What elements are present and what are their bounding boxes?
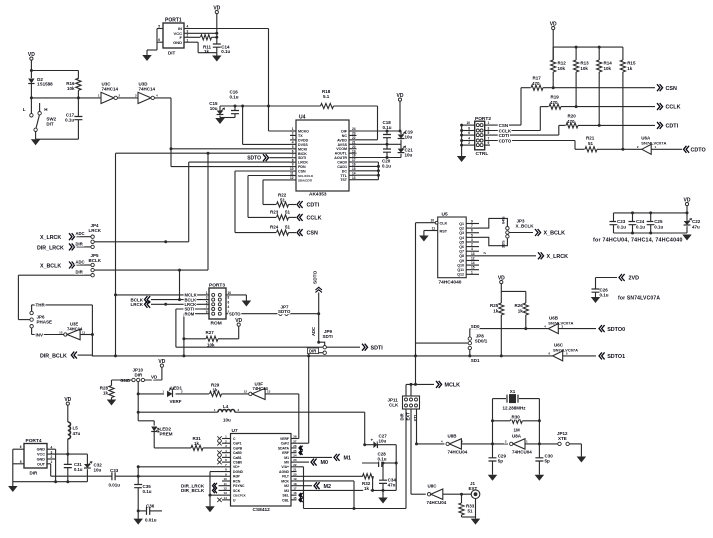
svg-text:3: 3 <box>292 136 294 140</box>
svg-text:DGND: DGND <box>233 470 244 474</box>
svg-text:SCK: SCK <box>233 489 241 493</box>
svg-text:13: 13 <box>352 176 356 180</box>
svg-text:10: 10 <box>290 167 294 171</box>
svg-text:RCN: RCN <box>233 479 241 483</box>
svg-text:5: 5 <box>206 300 208 304</box>
svg-text:23: 23 <box>293 458 297 462</box>
svg-text:C33: C33 <box>110 468 119 473</box>
svg-text:+: + <box>371 438 374 443</box>
svg-text:74HC14: 74HC14 <box>102 87 119 92</box>
svg-text:6: 6 <box>228 300 230 304</box>
svg-text:7: 7 <box>206 305 208 309</box>
svg-text:10u: 10u <box>379 439 387 444</box>
svg-text:DIT: DIT <box>46 122 54 127</box>
svg-text:1S1588: 1S1588 <box>37 82 53 87</box>
svg-text:12: 12 <box>290 176 294 180</box>
svg-text:CAD0: CAD0 <box>337 161 347 165</box>
svg-text:for 74HCU04, 74HC14, 74HC4040: for 74HCU04, 74HC14, 74HC4040 <box>593 238 683 244</box>
svg-text:4: 4 <box>228 305 230 309</box>
svg-text:SD0/1: SD0/1 <box>475 338 488 343</box>
svg-text:12: 12 <box>59 330 63 334</box>
svg-text:10u: 10u <box>210 106 218 111</box>
svg-text:64fs: 64fs <box>502 216 506 224</box>
svg-text:CAD1: CAD1 <box>337 165 347 169</box>
svg-text:LRCK: LRCK <box>89 228 102 233</box>
svg-text:FSYNC: FSYNC <box>233 484 245 488</box>
svg-text:12: 12 <box>471 256 475 260</box>
svg-text:5: 5 <box>471 233 473 237</box>
svg-text:8: 8 <box>468 127 470 131</box>
svg-text:11: 11 <box>290 172 294 176</box>
svg-text:VD+: VD+ <box>233 465 240 469</box>
svg-text:15: 15 <box>352 167 356 171</box>
svg-text:SDTI: SDTI <box>323 334 333 339</box>
svg-text:Q6: Q6 <box>459 245 464 249</box>
svg-text:0.1u: 0.1u <box>383 125 392 130</box>
svg-text:6: 6 <box>292 149 294 153</box>
svg-text:10k: 10k <box>67 86 75 91</box>
svg-text:ROM: ROM <box>185 311 195 316</box>
svg-text:CDTI: CDTI <box>666 124 679 130</box>
svg-text:Q11: Q11 <box>457 268 464 272</box>
svg-text:1k: 1k <box>364 486 370 491</box>
svg-text:17: 17 <box>293 487 297 491</box>
svg-text:C36: C36 <box>146 504 155 509</box>
svg-text:9: 9 <box>488 141 490 145</box>
svg-text:MCKI: MCKI <box>298 147 307 151</box>
svg-text:8: 8 <box>228 296 230 300</box>
svg-text:Q3: Q3 <box>459 231 464 235</box>
svg-text:11: 11 <box>432 226 436 230</box>
svg-text:20: 20 <box>352 145 356 149</box>
svg-text:LRCK: LRCK <box>131 302 144 307</box>
svg-text:AVDD: AVDD <box>337 138 347 142</box>
svg-text:R17: R17 <box>533 76 542 81</box>
svg-text:PREM: PREM <box>160 432 173 437</box>
svg-text:MCLK: MCLK <box>445 383 461 389</box>
svg-text:PORT3: PORT3 <box>209 283 225 289</box>
svg-text:ADC: ADC <box>311 327 316 336</box>
svg-text:12: 12 <box>223 487 227 491</box>
svg-text:22: 22 <box>352 136 356 140</box>
svg-text:10: 10 <box>223 477 227 481</box>
svg-text:TX: TX <box>298 134 303 138</box>
svg-text:SDTO: SDTO <box>278 309 291 314</box>
svg-text:TTL: TTL <box>340 174 347 178</box>
svg-text:M1: M1 <box>344 455 352 461</box>
svg-text:SDTO: SDTO <box>247 156 261 162</box>
svg-text:1: 1 <box>292 127 294 131</box>
svg-text:R30: R30 <box>512 414 521 419</box>
svg-text:U4: U4 <box>299 115 306 121</box>
svg-text:47u: 47u <box>692 224 700 229</box>
svg-text:15: 15 <box>471 266 475 270</box>
svg-text:DIR_BCLK: DIR_BCLK <box>40 353 67 359</box>
svg-text:0.1u: 0.1u <box>221 49 230 54</box>
svg-text:R12: R12 <box>558 61 567 66</box>
svg-text:SDTO0: SDTO0 <box>607 327 625 333</box>
svg-text:MCK: MCK <box>281 479 289 483</box>
svg-text:L: L <box>23 107 26 112</box>
svg-text:1k: 1k <box>103 391 109 396</box>
svg-text:4: 4 <box>292 140 294 144</box>
svg-text:2: 2 <box>471 243 473 247</box>
svg-text:INV: INV <box>36 333 44 338</box>
svg-text:AOUTR: AOUTR <box>334 156 347 160</box>
svg-text:C24: C24 <box>636 219 645 224</box>
svg-text:8: 8 <box>292 158 294 162</box>
svg-text:PORT4: PORT4 <box>26 438 42 444</box>
svg-text:SDATA: SDATA <box>278 446 290 450</box>
svg-text:16: 16 <box>293 491 297 495</box>
svg-text:1k: 1k <box>213 388 219 393</box>
svg-text:VERF: VERF <box>280 437 289 441</box>
svg-text:H: H <box>44 107 47 112</box>
svg-text:14: 14 <box>223 496 227 500</box>
svg-text:22: 22 <box>293 463 297 467</box>
svg-text:10k: 10k <box>558 66 566 71</box>
svg-text:0.1u: 0.1u <box>74 467 83 472</box>
svg-text:VD: VD <box>151 375 158 380</box>
svg-text:CDTO: CDTO <box>499 138 512 143</box>
svg-text:DIR: DIR <box>76 241 83 246</box>
svg-text:RdP: RdP <box>233 475 241 479</box>
svg-text:3: 3 <box>471 238 473 242</box>
svg-text:CSN: CSN <box>666 86 677 92</box>
svg-text:CSN: CSN <box>499 123 509 128</box>
svg-text:VCOM: VCOM <box>336 147 347 151</box>
svg-text:NC: NC <box>342 134 348 138</box>
svg-text:51: 51 <box>285 225 291 230</box>
svg-text:R20: R20 <box>568 113 577 118</box>
svg-text:LRCK: LRCK <box>298 161 308 165</box>
svg-text:CS8412: CS8412 <box>253 507 271 513</box>
svg-text:DVDD: DVDD <box>298 138 309 142</box>
svg-text:SDTI: SDTI <box>298 156 306 160</box>
svg-text:CaF2: CaF2 <box>281 442 289 446</box>
svg-text:DIR_BCLK: DIR_BCLK <box>181 488 205 493</box>
svg-text:51: 51 <box>285 210 291 215</box>
svg-text:CaPB: CaPB <box>233 446 243 450</box>
svg-text:U8C: U8C <box>428 484 438 489</box>
svg-text:15: 15 <box>293 496 297 500</box>
svg-text:X_BCLK: X_BCLK <box>544 231 566 237</box>
svg-text:GND: GND <box>37 458 46 462</box>
svg-text:DIR: DIR <box>400 413 405 420</box>
svg-text:19: 19 <box>352 149 356 153</box>
svg-text:5: 5 <box>488 131 490 135</box>
svg-text:21: 21 <box>352 140 356 144</box>
svg-text:0.1u: 0.1u <box>65 118 74 123</box>
svg-text:Q1: Q1 <box>459 222 464 226</box>
svg-text:5: 5 <box>292 145 294 149</box>
svg-text:21: 21 <box>293 468 297 472</box>
svg-text:0.1u: 0.1u <box>636 224 645 229</box>
svg-text:CaP1: CaP1 <box>233 442 242 446</box>
svg-text:ADC: ADC <box>76 231 85 236</box>
svg-text:CDTO: CDTO <box>691 147 706 153</box>
svg-text:CBL: CBL <box>282 498 289 502</box>
svg-text:RST: RST <box>440 229 448 233</box>
svg-text:EXT: EXT <box>469 486 478 491</box>
svg-text:L4: L4 <box>223 404 229 409</box>
svg-text:9: 9 <box>206 310 208 314</box>
svg-text:7: 7 <box>471 224 473 228</box>
svg-text:1k: 1k <box>627 66 633 71</box>
svg-text:10u: 10u <box>405 135 413 140</box>
svg-text:X1: X1 <box>510 389 516 394</box>
svg-text:DIR: DIR <box>76 270 83 275</box>
svg-text:AGND: AGND <box>279 470 290 474</box>
svg-text:1: 1 <box>51 460 53 464</box>
svg-text:Q2: Q2 <box>459 227 464 231</box>
svg-text:PDN: PDN <box>298 165 306 169</box>
svg-text:CB/CPCK: CB/CPCK <box>233 494 246 498</box>
svg-text:0.1u: 0.1u <box>378 457 387 462</box>
svg-text:Q12: Q12 <box>457 273 464 277</box>
svg-text:CaB0: CaB0 <box>233 451 242 455</box>
svg-text:M0: M0 <box>321 460 329 466</box>
svg-text:23: 23 <box>352 132 356 136</box>
svg-text:1: 1 <box>187 38 189 42</box>
svg-text:13: 13 <box>471 252 475 256</box>
svg-text:24: 24 <box>293 453 297 457</box>
svg-text:CSN: CSN <box>307 231 318 237</box>
svg-text:Q5: Q5 <box>459 240 464 244</box>
svg-text:M0: M0 <box>284 461 289 465</box>
svg-text:5p: 5p <box>545 459 551 464</box>
svg-text:5p: 5p <box>498 459 504 464</box>
svg-text:1M: 1M <box>514 428 521 433</box>
svg-text:U5: U5 <box>442 212 448 218</box>
svg-text:1k: 1k <box>204 49 210 54</box>
svg-text:DVSS: DVSS <box>298 143 308 147</box>
svg-text:51: 51 <box>588 141 594 146</box>
svg-text:CLK: CLK <box>440 222 448 226</box>
svg-text:DIR: DIR <box>135 372 144 377</box>
svg-text:1k: 1k <box>493 308 499 313</box>
svg-text:1k: 1k <box>194 441 200 446</box>
svg-text:6: 6 <box>158 38 160 42</box>
svg-text:R15: R15 <box>627 61 636 66</box>
svg-text:5: 5 <box>20 460 22 464</box>
svg-text:74HC14: 74HC14 <box>67 326 83 331</box>
svg-text:ROM: ROM <box>211 321 222 327</box>
svg-text:U8A: U8A <box>512 434 522 439</box>
svg-text:11: 11 <box>224 482 228 486</box>
svg-text:LED1: LED1 <box>171 386 183 391</box>
svg-text:10k: 10k <box>604 66 612 71</box>
svg-text:MCKO: MCKO <box>298 130 309 134</box>
svg-text:M2: M2 <box>284 484 289 488</box>
svg-text:BCLK: BCLK <box>89 258 102 263</box>
svg-text:5: 5 <box>158 25 160 29</box>
svg-text:SDTO: SDTO <box>313 270 319 284</box>
svg-text:10: 10 <box>430 219 434 223</box>
svg-text:fs: fs <box>484 251 487 255</box>
svg-text:JP3: JP3 <box>517 218 526 223</box>
svg-text:5.1: 5.1 <box>323 94 330 99</box>
svg-text:R14: R14 <box>604 61 613 66</box>
svg-text:SEL: SEL <box>282 494 289 498</box>
svg-text:CDTI: CDTI <box>307 203 320 209</box>
svg-text:7: 7 <box>488 137 490 141</box>
svg-text:M1: M1 <box>284 456 289 460</box>
svg-text:R26: R26 <box>515 303 524 308</box>
svg-text:CSB0: CSB0 <box>233 461 242 465</box>
svg-text:SDTO1: SDTO1 <box>607 354 625 360</box>
svg-text:C25: C25 <box>654 219 663 224</box>
svg-text:C22: C22 <box>692 219 701 224</box>
svg-text:GND: GND <box>173 40 182 45</box>
svg-text:DIR: DIR <box>30 471 39 476</box>
svg-text:C23: C23 <box>617 219 626 224</box>
svg-text:TST: TST <box>340 178 348 182</box>
svg-text:13: 13 <box>267 390 271 394</box>
svg-text:6: 6 <box>471 229 473 233</box>
svg-text:DIT: DIT <box>168 51 176 56</box>
svg-text:11: 11 <box>82 330 86 334</box>
svg-text:2: 2 <box>468 141 470 145</box>
svg-text:DIR: DIR <box>309 349 316 354</box>
svg-text:10u: 10u <box>223 417 231 422</box>
svg-text:VCC: VCC <box>37 453 45 457</box>
svg-text:X_LRCK: X_LRCK <box>40 235 61 241</box>
svg-text:0.1u: 0.1u <box>654 224 663 229</box>
svg-text:U8B: U8B <box>448 433 458 438</box>
svg-text:4: 4 <box>468 137 470 141</box>
svg-text:SD0: SD0 <box>471 324 480 329</box>
svg-text:R25: R25 <box>490 303 499 308</box>
svg-text:Q9: Q9 <box>459 259 464 263</box>
svg-text:4: 4 <box>471 247 473 251</box>
svg-text:L5: L5 <box>73 426 79 431</box>
svg-text:3: 3 <box>206 296 208 300</box>
svg-text:CaB1: CaB1 <box>233 456 242 460</box>
svg-text:17: 17 <box>352 158 356 162</box>
svg-text:1: 1 <box>471 270 473 274</box>
svg-text:1k: 1k <box>518 308 524 313</box>
svg-text:PORT1: PORT1 <box>165 18 182 24</box>
svg-text:Q4: Q4 <box>459 236 464 240</box>
svg-text:74HCU04: 74HCU04 <box>448 450 468 455</box>
svg-text:SDTO: SDTO <box>229 312 241 317</box>
svg-text:3: 3 <box>488 127 490 131</box>
svg-text:CSN: CSN <box>298 170 306 174</box>
svg-text:2: 2 <box>187 34 189 38</box>
svg-text:R19: R19 <box>551 95 560 100</box>
svg-text:25: 25 <box>293 449 297 453</box>
svg-text:AOUTL: AOUTL <box>335 152 348 156</box>
svg-text:6: 6 <box>468 131 470 135</box>
svg-text:DIF: DIF <box>341 130 348 134</box>
svg-text:10: 10 <box>466 121 470 125</box>
svg-text:R24: R24 <box>270 225 279 230</box>
svg-text:24: 24 <box>352 127 356 131</box>
svg-text:74HC14: 74HC14 <box>139 87 156 92</box>
svg-text:10u: 10u <box>94 467 102 472</box>
svg-text:16: 16 <box>352 163 356 167</box>
svg-text:12.288MHz: 12.288MHz <box>503 406 527 411</box>
svg-text:X_BCLK: X_BCLK <box>40 263 61 269</box>
svg-text:SDTI: SDTI <box>371 345 384 351</box>
svg-text:12: 12 <box>244 390 248 394</box>
svg-text:14: 14 <box>352 171 356 175</box>
svg-text:74HCU04: 74HCU04 <box>512 450 532 455</box>
svg-text:SCL/CCLK: SCL/CCLK <box>298 174 314 178</box>
svg-text:0.1u: 0.1u <box>382 164 391 169</box>
svg-text:51: 51 <box>468 509 474 514</box>
svg-text:47n: 47n <box>388 483 396 488</box>
svg-text:PHASE: PHASE <box>37 320 53 325</box>
svg-text:10k: 10k <box>207 342 215 347</box>
svg-text:SDA/CDTI: SDA/CDTI <box>298 178 312 182</box>
svg-text:XTE: XTE <box>558 436 567 441</box>
svg-text:AVSS: AVSS <box>337 143 347 147</box>
svg-text:U7: U7 <box>232 428 238 434</box>
svg-text:DC: DC <box>342 169 348 173</box>
svg-text:ADC: ADC <box>76 260 85 265</box>
svg-text:CTRL: CTRL <box>476 151 489 157</box>
svg-text:THR: THR <box>36 303 46 308</box>
svg-text:0.1u: 0.1u <box>600 293 609 298</box>
svg-text:2VD: 2VD <box>629 276 640 282</box>
svg-text:SD1: SD1 <box>471 358 480 363</box>
svg-text:CLK: CLK <box>389 403 399 408</box>
svg-text:74HC4040: 74HC4040 <box>439 280 462 286</box>
svg-text:Q10: Q10 <box>457 263 464 267</box>
svg-text:9: 9 <box>471 220 473 224</box>
svg-text:for SN74LVC07A: for SN74LVC07A <box>618 296 660 302</box>
svg-text:470: 470 <box>532 81 540 86</box>
svg-text:51: 51 <box>280 198 286 203</box>
svg-text:7: 7 <box>292 154 294 158</box>
svg-text:470: 470 <box>567 119 575 124</box>
svg-text:0.01u: 0.01u <box>109 482 121 487</box>
svg-text:47u: 47u <box>73 431 81 436</box>
svg-text:19: 19 <box>293 477 297 481</box>
svg-text:20: 20 <box>293 472 297 476</box>
svg-text:26: 26 <box>293 444 297 448</box>
svg-text:V/A+: V/A+ <box>281 465 289 469</box>
svg-text:FILT: FILT <box>282 475 290 479</box>
svg-text:X_BCLK: X_BCLK <box>516 224 535 229</box>
svg-text:9: 9 <box>292 163 294 167</box>
svg-text:R27: R27 <box>206 330 215 335</box>
svg-text:R21: R21 <box>586 136 595 141</box>
svg-text:4: 4 <box>187 25 189 29</box>
svg-text:OUT: OUT <box>37 462 46 466</box>
svg-text:BICK: BICK <box>298 152 307 156</box>
svg-text:18: 18 <box>293 482 297 486</box>
svg-text:CDTI: CDTI <box>499 133 510 138</box>
svg-text:0.1u: 0.1u <box>143 489 152 494</box>
svg-text:X_LRCK: X_LRCK <box>547 254 569 260</box>
svg-text:6: 6 <box>20 445 22 449</box>
svg-text:CCLK: CCLK <box>307 216 322 222</box>
svg-text:ERF: ERF <box>282 451 289 455</box>
svg-text:10u: 10u <box>405 153 413 158</box>
svg-text:CCLK: CCLK <box>666 105 681 111</box>
svg-text:14: 14 <box>471 261 475 265</box>
svg-text:R23: R23 <box>270 210 279 215</box>
svg-text:Q7: Q7 <box>459 250 464 254</box>
svg-text:18: 18 <box>352 154 356 158</box>
svg-text:GND: GND <box>37 448 46 452</box>
svg-text:VERF: VERF <box>170 399 182 404</box>
svg-text:R13: R13 <box>580 61 589 66</box>
svg-text:13: 13 <box>223 491 227 495</box>
